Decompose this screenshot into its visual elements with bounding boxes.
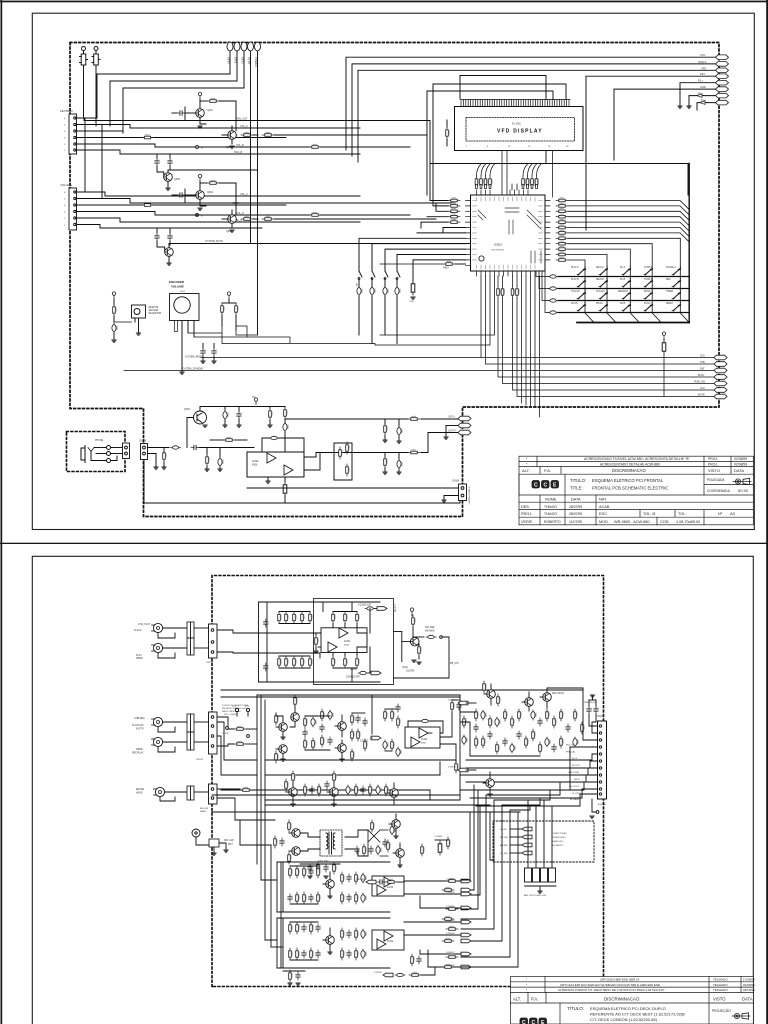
svg-text:1/2W01: 1/2W01 bbox=[448, 700, 456, 702]
ground below encoder bbox=[180, 372, 184, 374]
resistor pair R623 R624 below IC bbox=[511, 286, 519, 298]
resistor R642 bbox=[268, 407, 273, 428]
resistor R202 bbox=[234, 741, 246, 745]
right column components field bbox=[474, 709, 585, 754]
resistor R633 bbox=[235, 303, 239, 330]
mid components col4 bbox=[351, 713, 368, 761]
svg-text:CN201: CN201 bbox=[206, 662, 214, 664]
transistor Q602 cluster bbox=[222, 126, 427, 149]
svg-text:ROBERTO: ROBERTO bbox=[544, 520, 561, 524]
svg-text:11/07/99: 11/07/99 bbox=[569, 520, 582, 524]
caps above connector bbox=[584, 695, 598, 714]
svg-text:C: C bbox=[544, 482, 548, 488]
bottom filter B components bbox=[289, 922, 321, 960]
text block notes bbox=[222, 704, 249, 716]
matrix row lines bbox=[558, 277, 689, 313]
left input arrows bottom bbox=[356, 879, 404, 884]
resistor R201 bbox=[234, 726, 246, 730]
svg-text:TITULO:: TITULO: bbox=[570, 478, 586, 483]
IC601 bottom pin stubs bbox=[477, 271, 536, 276]
svg-text:01/09/99: 01/09/99 bbox=[743, 983, 755, 987]
capacitor C630 bbox=[112, 323, 118, 342]
wire top long bus to right terminals bbox=[346, 57, 717, 230]
headphone out connector CN606 bbox=[442, 481, 471, 505]
page 1 title block table bbox=[519, 456, 753, 525]
capacitor C202 bbox=[264, 663, 269, 671]
svg-text:ESQUEMA ELETRICO PCI DECK DUPL: ESQUEMA ELETRICO PCI DECK DUPLO bbox=[590, 1006, 666, 1011]
svg-text:02/08/99: 02/08/99 bbox=[734, 457, 747, 461]
bottom opamp IC203 bbox=[372, 876, 404, 896]
svg-text:COORDENADA: COORDENADA bbox=[707, 489, 731, 493]
svg-text:DISCRIMINACAO: DISCRIMINACAO bbox=[612, 468, 646, 473]
power VD604 bbox=[252, 396, 258, 405]
svg-text:MEMORY: MEMORY bbox=[618, 291, 629, 293]
svg-text:DEMO: DEMO bbox=[666, 303, 673, 305]
svg-text:TP203: TP203 bbox=[222, 733, 229, 735]
bias caps below bbox=[300, 862, 340, 878]
main dashed boundary (front panel PCB) bbox=[70, 43, 719, 517]
svg-text:1: 1 bbox=[64, 225, 66, 227]
lower transistor Q209 bbox=[387, 783, 398, 804]
resistor pair R621 R622 below IC bbox=[497, 286, 505, 298]
svg-text:WR-9800 - ACW-880: WR-9800 - ACW-880 bbox=[614, 520, 650, 524]
svg-text:TECHADO: TECHADO bbox=[713, 978, 728, 982]
svg-text:AL-VOUT: AL-VOUT bbox=[570, 785, 580, 788]
svg-text:PLAY-B: PLAY-B bbox=[571, 278, 579, 281]
page 1 inner frame bbox=[32, 13, 754, 529]
resistor array left RA601 bbox=[448, 197, 460, 223]
svg-text:PRE-L/AL: PRE-L/AL bbox=[566, 751, 576, 754]
ground near right stubs bbox=[678, 106, 682, 108]
svg-text:NO DE: NO DE bbox=[738, 489, 748, 493]
svg-text:ESQUEMA ELETRICO PCI FRONTAL: ESQUEMA ELETRICO PCI FRONTAL bbox=[592, 478, 664, 483]
svg-text:SWL_OUT: SWL_OUT bbox=[236, 118, 248, 121]
svg-text:OUT-R: OUT-R bbox=[448, 430, 456, 433]
wires erase head into circuit bbox=[217, 787, 275, 820]
power bus top bbox=[200, 406, 285, 408]
svg-text:6: 6 bbox=[64, 192, 66, 194]
capacitor C649 bbox=[397, 453, 403, 475]
long rails to bottom bbox=[461, 806, 493, 895]
svg-text:ENCODER: ENCODER bbox=[169, 280, 185, 284]
wire stub below connector bbox=[590, 799, 599, 818]
block CN203 bbox=[187, 714, 194, 750]
resistor R646 below amp bbox=[283, 477, 287, 503]
RCA jack J201 R-AUX bbox=[134, 623, 163, 633]
svg-text:3: 3 bbox=[64, 138, 66, 140]
feedback above IC202 bbox=[408, 719, 443, 733]
bias left rail links bbox=[240, 800, 277, 940]
svg-text:A3: A3 bbox=[730, 511, 736, 516]
capacitor C632 bbox=[212, 344, 217, 364]
wires connector CN602 fan-out bbox=[76, 192, 455, 228]
matrix bottom bus bbox=[577, 322, 689, 324]
deck switch SW601 bbox=[355, 268, 363, 335]
capacitor C648 bbox=[383, 453, 388, 475]
wires right fan diagonals to bus bbox=[568, 201, 689, 242]
bias oscillator transformer T201 bbox=[318, 830, 342, 863]
svg-text:PLAY-A: PLAY-A bbox=[571, 266, 579, 269]
svg-text:MD BIAS: MD BIAS bbox=[425, 630, 435, 633]
svg-text:DES.: DES. bbox=[521, 505, 530, 509]
VFD display module DS601 bbox=[455, 107, 584, 151]
ground near terminal bbox=[444, 437, 448, 439]
svg-text:ALTERADO CODIGO C/T. DECK BEST: ALTERADO CODIGO C/T. DECK BEST DE 1.02.5… bbox=[558, 988, 665, 992]
svg-text:5: 5 bbox=[64, 125, 66, 127]
power VD602 bbox=[112, 292, 115, 305]
svg-text:RECEPTOR: RECEPTOR bbox=[149, 313, 162, 315]
svg-text:BAND: BAND bbox=[644, 290, 651, 293]
svg-text:1/2W02: 1/2W02 bbox=[360, 741, 369, 743]
svg-text:HEAD: HEAD bbox=[200, 810, 206, 813]
resistor trio in-box upper bbox=[332, 612, 360, 624]
svg-text:uPD78P0914: uPD78P0914 bbox=[491, 250, 505, 252]
CCE logo page2 bbox=[520, 1018, 547, 1024]
connector CN602 bbox=[60, 183, 77, 230]
svg-text:PHONE: PHONE bbox=[95, 440, 104, 442]
4 pin connector block bbox=[524, 800, 556, 897]
svg-text:P.A.: P.A. bbox=[531, 996, 538, 1001]
svg-text:TP2: TP2 bbox=[245, 706, 250, 708]
bottom filter B transistor bbox=[323, 928, 334, 954]
capacitor C631 bbox=[201, 344, 206, 364]
svg-text:L/CH(A): L/CH(A) bbox=[393, 604, 396, 612]
svg-text:TUN-DN: TUN-DN bbox=[596, 291, 605, 293]
key switch column stubs bbox=[585, 266, 680, 305]
svg-text:ALT.: ALT. bbox=[513, 996, 521, 1001]
svg-text:ACRESCENTADO DETALHE ACW-880: ACRESCENTADO DETALHE ACW-880 bbox=[600, 462, 660, 466]
capacitor C643 bbox=[283, 422, 289, 452]
svg-text:TECHADO: TECHADO bbox=[713, 988, 728, 992]
wire VFD grid bus upper bbox=[427, 76, 566, 196]
IC601 left pin stubs bbox=[466, 201, 471, 266]
bottom filter A right parts bbox=[341, 872, 367, 904]
svg-text:VOL_B: VOL_B bbox=[236, 144, 244, 147]
svg-text:R610: R610 bbox=[443, 267, 449, 270]
svg-text:DE APOIO AO: DE APOIO AO bbox=[552, 836, 566, 839]
lower transistor Q207 bbox=[285, 771, 298, 806]
matrix right bus bbox=[688, 164, 690, 323]
svg-text:REC/PLAY: REC/PLAY bbox=[132, 752, 144, 755]
svg-text:AM-MW: AM-MW bbox=[500, 844, 508, 847]
wires right column runs bbox=[460, 712, 590, 812]
svg-text:VOL_C: VOL_C bbox=[240, 193, 248, 196]
transistor Q607 mute bbox=[184, 407, 207, 448]
svg-text:KEY: KEY bbox=[700, 72, 705, 76]
svg-text:REC/PB: REC/PB bbox=[200, 808, 209, 810]
svg-text:VOLUME: VOLUME bbox=[171, 285, 184, 289]
wires inside box verticals bbox=[316, 602, 370, 682]
svg-text:Q602: Q602 bbox=[226, 146, 233, 149]
arrow terminal column bbox=[461, 879, 471, 969]
svg-text:GND: GND bbox=[700, 85, 706, 89]
svg-text:VCC: VCC bbox=[700, 53, 706, 57]
svg-text:VOL_A: VOL_A bbox=[240, 125, 248, 128]
CCE logo page1 bbox=[532, 481, 559, 489]
svg-text:STB: STB bbox=[700, 361, 705, 364]
wires IC left bbox=[359, 121, 466, 283]
svg-text:REW-B: REW-B bbox=[596, 279, 604, 281]
capacitor C650 bbox=[409, 281, 415, 303]
block CN206 bbox=[187, 786, 194, 800]
svg-text:THIAGO: THIAGO bbox=[544, 512, 557, 516]
bottom filter section box A bbox=[277, 862, 390, 912]
audio terminals TA1-TA3 bbox=[458, 416, 471, 435]
svg-text:SINAL FIXO: SINAL FIXO bbox=[552, 840, 564, 843]
connector CN202 bbox=[194, 624, 217, 664]
IC202 outputs bbox=[428, 712, 456, 762]
wires into upper block bbox=[217, 630, 333, 658]
bus runs mid-bottom bbox=[212, 795, 518, 820]
svg-text:6: 6 bbox=[64, 118, 66, 120]
resistor R604 bbox=[309, 212, 321, 216]
mid right components bbox=[451, 700, 468, 773]
wire mid run bbox=[338, 426, 459, 453]
transistor Q201 cluster bbox=[394, 608, 450, 673]
svg-text:B: B bbox=[201, 216, 203, 218]
terminal P1 bbox=[227, 42, 233, 74]
matrix row feeds from IC bottom bbox=[536, 271, 549, 313]
svg-text:IC601: IC601 bbox=[494, 243, 502, 247]
svg-text:02/08/99: 02/08/99 bbox=[734, 462, 747, 466]
page 2 outer sheet border bbox=[1, 543, 768, 1024]
svg-text:REMOTE: REMOTE bbox=[149, 307, 159, 309]
terminal P2 bbox=[234, 42, 240, 81]
svg-text:Q201: Q201 bbox=[402, 666, 409, 669]
power VD601 bbox=[662, 332, 665, 341]
svg-text:CONECTORES: CONECTORES bbox=[552, 833, 567, 835]
svg-text:MUTE: MUTE bbox=[698, 394, 705, 397]
svg-text:BUSY: BUSY bbox=[698, 374, 705, 377]
svg-text:1.08.70a55.00: 1.08.70a55.00 bbox=[676, 520, 700, 524]
headphone amp IC602 bbox=[247, 452, 304, 477]
svg-text:TÍTULO:: TÍTULO: bbox=[567, 1006, 584, 1011]
svg-text:FM-VHF: FM-VHF bbox=[500, 837, 509, 839]
terminal P4 bbox=[248, 42, 254, 243]
svg-text:ACK: ACK bbox=[700, 387, 705, 390]
svg-text:VFD: VFD bbox=[701, 66, 706, 70]
page 1 outer sheet border bbox=[0, 0, 768, 544]
mid transistor Q204 bbox=[290, 695, 299, 727]
diode D602 bbox=[142, 202, 154, 206]
svg-text:VOL_D: VOL_D bbox=[236, 212, 244, 215]
svg-text:FIL-: FIL- bbox=[698, 92, 703, 96]
svg-text:PROJ.: PROJ. bbox=[708, 462, 718, 466]
svg-text:DATA: DATA bbox=[571, 498, 581, 502]
terminal arrow lower out bbox=[346, 669, 381, 679]
resistor R647 bbox=[408, 416, 420, 420]
svg-text:RL-OUT: RL-OUT bbox=[572, 765, 580, 767]
svg-text:OUT-L: OUT-L bbox=[448, 416, 456, 419]
key switches row3 bbox=[577, 293, 680, 299]
ground below sensor bbox=[136, 330, 140, 335]
resistor R610 lower-left of IC bbox=[380, 261, 466, 270]
arrow into VFD line 2 bbox=[700, 101, 705, 105]
resistor array second stage bbox=[476, 185, 538, 189]
deck switch SW603 bbox=[383, 268, 389, 335]
svg-text:TOL. Ø: TOL. Ø bbox=[643, 512, 655, 516]
IC601 right pin stubs bbox=[545, 201, 550, 260]
svg-text:IC203: IC203 bbox=[387, 887, 394, 889]
svg-text:4: 4 bbox=[64, 131, 66, 133]
svg-text:CD-PL: CD-PL bbox=[571, 303, 579, 305]
mic input circuit bbox=[192, 829, 234, 855]
svg-text:L-100B2: L-100B2 bbox=[434, 836, 443, 838]
svg-text:CHA_PLAY: CHA_PLAY bbox=[138, 623, 151, 626]
svg-text:MIC AMP: MIC AMP bbox=[425, 626, 435, 629]
page 2 title block table bbox=[511, 977, 756, 1024]
wire inter-connector verticals bbox=[76, 118, 105, 199]
big box upper section bbox=[314, 599, 394, 685]
svg-text:Q605: Q605 bbox=[184, 409, 190, 411]
IC601 microcontroller bbox=[471, 195, 546, 271]
transistor Q603 cluster bbox=[155, 154, 258, 190]
circle node TP203 bbox=[222, 727, 249, 738]
right column transistor Q211 bbox=[483, 681, 501, 706]
bias osc transistors bbox=[274, 820, 320, 864]
svg-text:MIC CAP: MIC CAP bbox=[224, 839, 234, 842]
svg-text:S601: S601 bbox=[180, 291, 186, 293]
key switches row4 bbox=[577, 305, 680, 311]
svg-text:FUNC: FUNC bbox=[644, 303, 651, 305]
svg-text:28/07/99: 28/07/99 bbox=[569, 512, 582, 516]
svg-text:SYSTEM_MUTE: SYSTEM_MUTE bbox=[205, 240, 223, 243]
svg-text:Q603: Q603 bbox=[174, 178, 181, 181]
right column transistor Q212 bbox=[522, 692, 533, 711]
transistor Q604 cluster bbox=[172, 174, 236, 214]
wire to PB_57A bbox=[394, 658, 460, 678]
svg-text:3: 3 bbox=[64, 212, 66, 214]
svg-text:CL-12V0: CL-12V0 bbox=[572, 793, 581, 795]
svg-text:POWER: POWER bbox=[254, 57, 258, 67]
capacitor C642 bbox=[237, 407, 242, 428]
svg-text:IC202: IC202 bbox=[421, 738, 428, 741]
svg-text:HEAD: HEAD bbox=[136, 792, 143, 795]
arrow terminal PB right 2 bbox=[448, 767, 476, 772]
RCA jack J203 R-VIOLAO bbox=[132, 717, 163, 731]
mid components col5 bbox=[383, 704, 402, 757]
svg-text:RL-5I: RL-5I bbox=[572, 758, 578, 760]
mid transistor Q206 bbox=[335, 740, 346, 761]
bottom filter section box B rails bbox=[277, 918, 390, 968]
resistor R648 bbox=[408, 449, 420, 453]
wires IC top bbox=[477, 151, 553, 198]
svg-text:FRONTAL PCB SCHEMATIC ELECTRIC: FRONTAL PCB SCHEMATIC ELECTRIC bbox=[592, 486, 668, 491]
remote sensor RS601 bbox=[132, 305, 162, 330]
svg-text:1/2(W)2/12R: 1/2(W)2/12R bbox=[358, 605, 371, 607]
svg-text:VISTO: VISTO bbox=[713, 996, 726, 1001]
resistor group upper row bbox=[278, 612, 313, 624]
page 2 main dashed boundary (deck PCB) bbox=[212, 576, 604, 987]
capacitor C647 bbox=[397, 419, 403, 443]
RCA jack J204 KBRD REC bbox=[132, 737, 163, 754]
svg-text:C: C bbox=[532, 1020, 536, 1024]
svg-text:B-GTR: B-GTR bbox=[136, 728, 144, 731]
svg-text:Q601: Q601 bbox=[207, 109, 214, 112]
svg-text:1/2(W): 1/2(W) bbox=[350, 669, 357, 671]
connector CN603b bbox=[139, 441, 148, 460]
resistors before arrow column bbox=[442, 878, 458, 968]
svg-text:DATA: DATA bbox=[734, 468, 744, 473]
wires IC bottom drop bbox=[375, 276, 715, 417]
svg-text:IC201: IC201 bbox=[344, 640, 351, 643]
key labels bbox=[571, 266, 676, 305]
svg-text:TIMER: TIMER bbox=[666, 291, 673, 293]
svg-text:KBRD: KBRD bbox=[136, 657, 143, 660]
wire lower long runs bbox=[144, 460, 460, 503]
svg-text:COD.: COD. bbox=[660, 520, 670, 524]
svg-text:SKIP: SKIP bbox=[620, 303, 626, 305]
bottom opamp IC204 bbox=[372, 930, 404, 950]
feedback network block bbox=[334, 442, 352, 480]
transistor Q214 bbox=[483, 772, 494, 796]
wire right short stubs bbox=[614, 83, 717, 160]
capacitor C640 bbox=[191, 445, 254, 449]
RCA jack J202 PLAY KBRD bbox=[136, 643, 163, 660]
svg-text:POW_SW: POW_SW bbox=[694, 381, 706, 384]
svg-text:PROJEÇÃO: PROJEÇÃO bbox=[712, 1008, 731, 1013]
svg-text:C/T. DECK LONDON (1.62.52202.6: C/T. DECK LONDON (1.62.52202.65) bbox=[590, 1017, 658, 1022]
lower components row bbox=[304, 784, 389, 796]
svg-text:CN205: CN205 bbox=[597, 716, 605, 718]
svg-text:REFERENTE AO C/T. DECK BEST (1: REFERENTE AO C/T. DECK BEST (1.62.52172.… bbox=[590, 1012, 685, 1017]
svg-text:AC-MAIN: AC-MAIN bbox=[570, 798, 579, 801]
svg-text:MOD.: MOD. bbox=[599, 520, 609, 524]
svg-text:1: 1 bbox=[64, 150, 66, 152]
svg-text:C: C bbox=[534, 482, 538, 488]
svg-text:17/08/99: 17/08/99 bbox=[743, 978, 755, 982]
ground amp bbox=[266, 477, 270, 483]
first-angle projection symbol page2 bbox=[732, 1013, 750, 1019]
svg-text:PB-L/CH: PB-L/CH bbox=[566, 745, 575, 747]
capacitor C641 bbox=[223, 407, 229, 428]
svg-text:REC MUTE: REC MUTE bbox=[552, 693, 564, 695]
terminal arrow upper out bbox=[358, 604, 396, 612]
wire jack to resistor bbox=[148, 448, 170, 467]
matrix row resistors bbox=[548, 275, 558, 314]
svg-text:FIL+: FIL+ bbox=[698, 79, 704, 83]
mid transistor Q202 bbox=[275, 713, 288, 739]
ground jack return bbox=[154, 467, 158, 469]
capacitor C646 bbox=[383, 419, 388, 442]
svg-text:CN605: CN605 bbox=[139, 441, 147, 443]
svg-text:PROJ.: PROJ. bbox=[521, 512, 532, 516]
connector CN207 bbox=[194, 784, 217, 813]
svg-text:Q605: Q605 bbox=[226, 230, 233, 233]
power VD603 bbox=[222, 292, 236, 303]
svg-text:NOME: NOME bbox=[545, 498, 557, 502]
svg-text:SWL_B: SWL_B bbox=[234, 151, 243, 154]
sub dashed box notes bbox=[493, 821, 594, 862]
extra arrows right column bbox=[461, 888, 471, 943]
svg-text:1/2SW2: 1/2SW2 bbox=[374, 972, 383, 974]
svg-text:VD: VD bbox=[252, 396, 256, 399]
left rails upper block bbox=[259, 602, 381, 682]
VFD pin hatch row bbox=[461, 100, 570, 107]
bottom filter B right parts bbox=[341, 928, 367, 960]
bottom filter A components bbox=[288, 866, 321, 904]
connector CN204 bbox=[194, 712, 217, 761]
deck switch SW604 bbox=[395, 268, 401, 344]
IC601 top pins + resistor array RA602 bbox=[477, 190, 529, 195]
right edge terminals T1-T8 bbox=[716, 55, 729, 105]
resistor R630 bbox=[662, 340, 666, 397]
svg-text:2: 2 bbox=[64, 218, 66, 220]
test point TP202 bbox=[245, 706, 250, 716]
opamp IC202 bbox=[405, 727, 440, 748]
svg-text:TECHADO: TECHADO bbox=[713, 983, 728, 987]
svg-text:C650: C650 bbox=[409, 301, 415, 303]
